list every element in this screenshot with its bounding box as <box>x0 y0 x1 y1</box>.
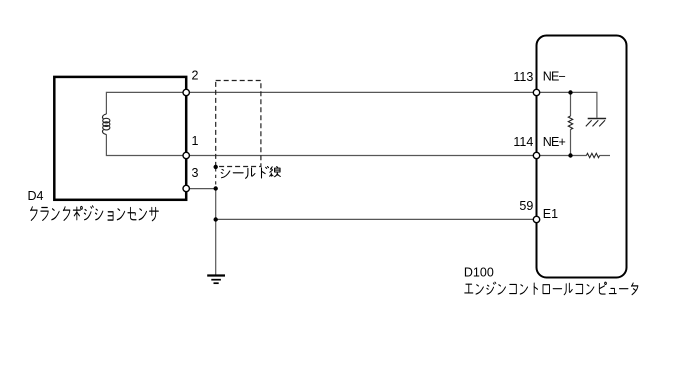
svg-text:D4: D4 <box>28 189 44 203</box>
svg-text:NE−: NE− <box>543 70 566 84</box>
svg-text:59: 59 <box>519 199 533 213</box>
svg-text:2: 2 <box>192 69 199 83</box>
svg-text:1: 1 <box>192 134 199 148</box>
svg-text:3: 3 <box>192 166 199 180</box>
svg-text:NE+: NE+ <box>543 135 566 149</box>
svg-text:E1: E1 <box>543 207 558 221</box>
svg-text:D100: D100 <box>464 266 494 280</box>
svg-text:113: 113 <box>513 70 533 84</box>
svg-text:114: 114 <box>513 135 533 149</box>
